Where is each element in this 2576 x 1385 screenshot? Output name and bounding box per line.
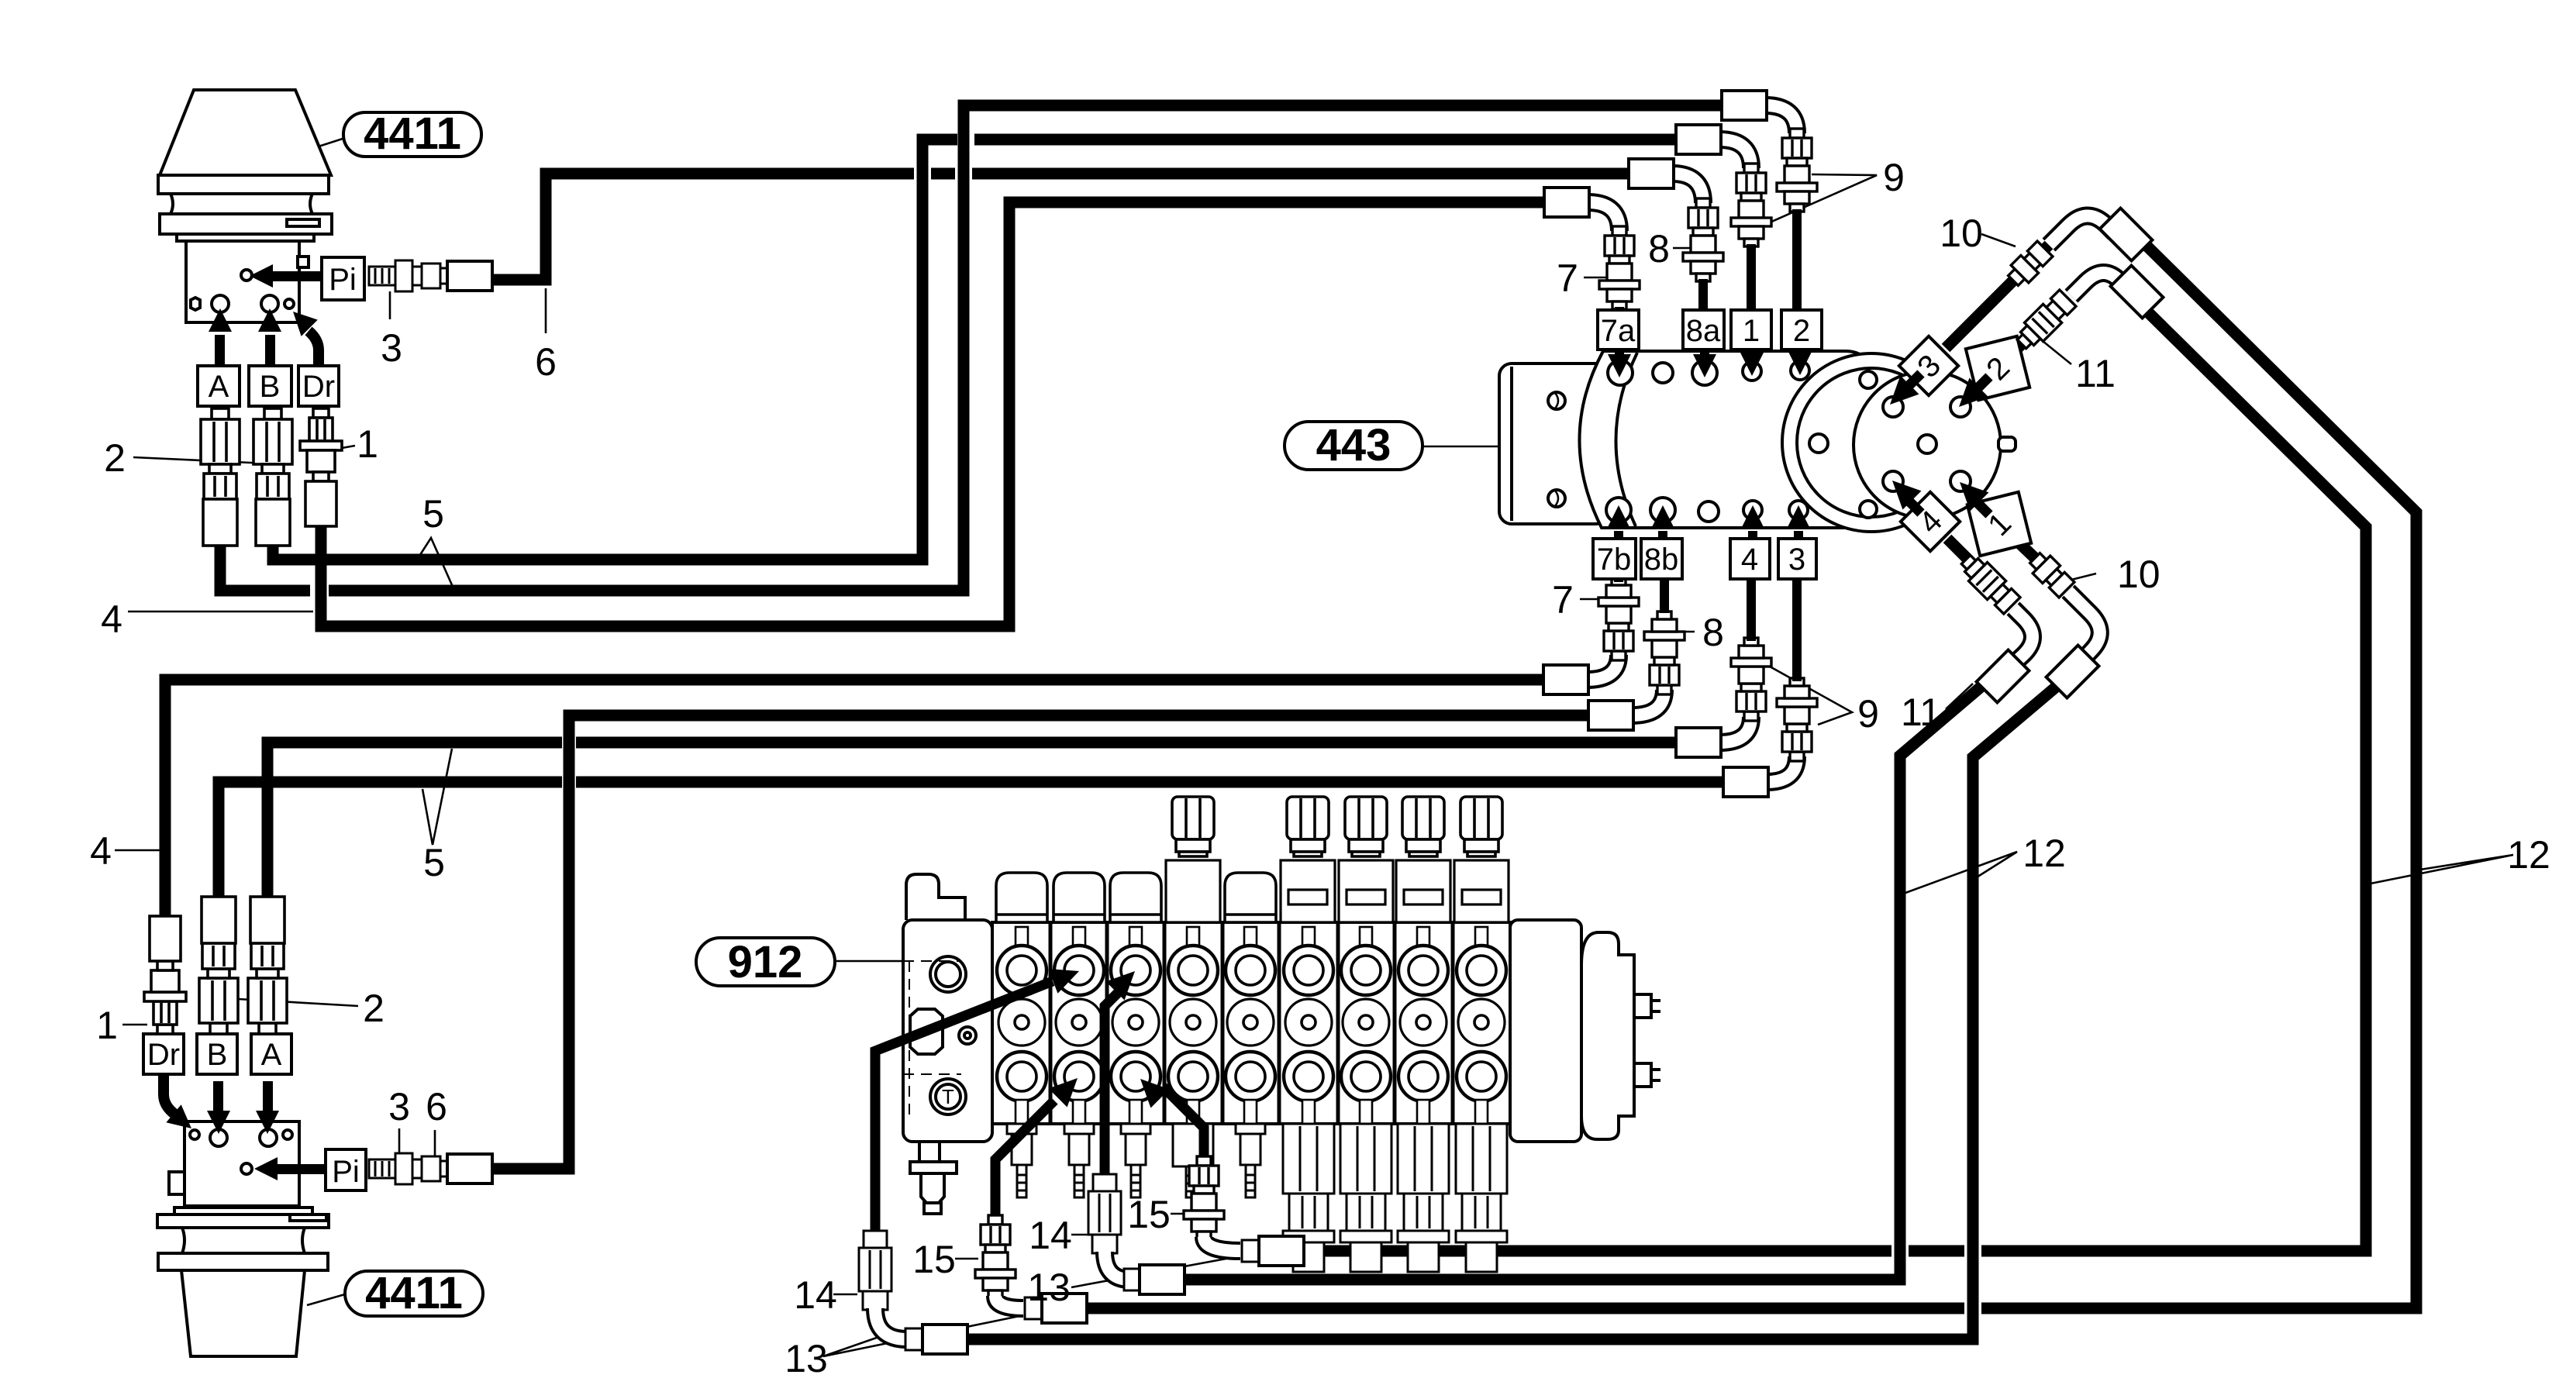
svg-text:A: A xyxy=(261,1038,282,1072)
svg-text:1: 1 xyxy=(357,422,378,466)
svg-text:8: 8 xyxy=(1648,227,1670,270)
svg-text:B: B xyxy=(260,370,281,404)
svg-text:11: 11 xyxy=(2075,352,2116,395)
curved Dr arrow bottom xyxy=(164,1076,175,1115)
hose B-top to swivel port 1 xyxy=(273,140,957,560)
right end plate and bracket xyxy=(1510,920,1660,1142)
joystick bellows trapezoid xyxy=(160,90,331,175)
svg-text:7b: 7b xyxy=(1597,543,1632,577)
arrow V4 to section3 bottom xyxy=(1163,1087,1204,1170)
leader label 11 lower xyxy=(1946,684,1973,709)
leader label 15 left xyxy=(955,1258,978,1260)
mounting bracket xyxy=(1499,363,1608,524)
arrowhead into valve section3 bottom port xyxy=(1131,1070,1169,1108)
fitting 11 upper xyxy=(2012,289,2077,353)
hose 12: square2 to fitting 11 upper xyxy=(2016,308,2058,350)
hose A-bottom to swivel port 4 xyxy=(267,742,562,915)
valve body xyxy=(184,1121,299,1206)
leader label 3 top xyxy=(389,291,391,319)
arrow V1 to section2 top xyxy=(875,981,1053,1234)
front flange circle xyxy=(1854,371,2001,519)
arrows from diamonds into flange ports xyxy=(1905,374,1989,515)
svg-text:7a: 7a xyxy=(1601,314,1636,348)
hose Dr-bottom to swivel 7b xyxy=(165,680,1548,938)
leader label 3 bottom xyxy=(398,1128,401,1153)
fitting stacks above top port boxes xyxy=(1599,226,1640,309)
svg-text:1: 1 xyxy=(96,1004,118,1047)
swivel body xyxy=(1579,351,2016,532)
V1 (item 14) xyxy=(859,1231,891,1310)
leader label 6 top xyxy=(545,288,547,333)
leader label 7 top xyxy=(1584,277,1606,279)
stems from boxes down to stacks xyxy=(1614,579,1802,681)
svg-text:2: 2 xyxy=(363,987,385,1030)
svg-text:Dr: Dr xyxy=(147,1038,180,1072)
valve body xyxy=(186,241,299,322)
svg-text:4: 4 xyxy=(90,829,112,873)
svg-text:9: 9 xyxy=(1883,156,1905,199)
svg-text:8b: 8b xyxy=(1644,543,1679,577)
svg-text:6: 6 xyxy=(426,1085,447,1128)
leader label 14 mid xyxy=(1071,1234,1088,1236)
leader 4411 bottom balloon xyxy=(307,1294,345,1305)
leader label 6 bottom xyxy=(434,1130,436,1159)
svg-text:15: 15 xyxy=(1127,1193,1171,1236)
svg-text:8: 8 xyxy=(1702,611,1724,654)
hose 12: elbowC down left leg xyxy=(1171,676,1994,1280)
svg-text:15: 15 xyxy=(912,1238,956,1281)
svg-text:7: 7 xyxy=(1557,257,1578,300)
svg-text:5: 5 xyxy=(423,841,445,884)
svg-text:912: 912 xyxy=(728,937,803,987)
bottom hose elbows into swivel bottom ports xyxy=(1587,655,1797,782)
fitting stacks below A,B xyxy=(201,408,240,546)
hose 12: elbow2 down to valve (inner right leg) xyxy=(1981,308,2366,1251)
arrowhead into valve section2 bottom port xyxy=(1049,1069,1087,1107)
leader label 13 right V xyxy=(1071,1256,1239,1287)
leader label 5 bottom V xyxy=(422,749,452,845)
fitting 3 at Pi bottom xyxy=(369,1153,447,1184)
leader label 8 bottom xyxy=(1673,631,1695,633)
fitting 3 at Pi (horizontal) xyxy=(369,260,447,291)
svg-text:2: 2 xyxy=(1793,314,1810,348)
flange plates xyxy=(158,175,329,194)
Pi arrow bottom xyxy=(273,1164,326,1174)
V3 (item 14 mid) xyxy=(1088,1174,1121,1253)
leader label 4 top xyxy=(128,611,313,613)
hose 12: elbowD down left outer leg xyxy=(964,680,2064,1339)
arrowhead into valve section3 top port xyxy=(1106,962,1144,1000)
svg-text:4411: 4411 xyxy=(365,1268,463,1318)
svg-text:9: 9 xyxy=(1857,692,1879,736)
port holes xyxy=(190,1130,199,1139)
svg-text:13: 13 xyxy=(1027,1266,1071,1309)
balloon 4411 top xyxy=(343,112,481,157)
port letter boxes xyxy=(198,257,364,406)
arrows from boxes up into bottom ports xyxy=(1614,531,1803,539)
body port holes top row xyxy=(1608,360,1633,385)
flange diamonds and squares xyxy=(1899,336,2031,556)
arrows from boxes into top ports xyxy=(1615,350,1805,357)
front flange holes xyxy=(1883,397,1903,417)
arrow V2 to section2 bottom xyxy=(995,1101,1054,1228)
leader label 11 top xyxy=(2043,341,2071,364)
svg-text:A: A xyxy=(209,370,229,404)
port letter boxes xyxy=(143,1034,366,1190)
svg-text:3: 3 xyxy=(1788,543,1805,577)
leader label 5 top V xyxy=(417,538,453,587)
arrowhead into valve section2 top port xyxy=(1048,959,1084,994)
V4 (item 15 right) xyxy=(1184,1156,1224,1239)
leader label 9 bottom V xyxy=(1770,667,1852,725)
flange plates xyxy=(174,1208,312,1214)
svg-text:12: 12 xyxy=(2507,833,2550,877)
Pi arrow top xyxy=(268,271,321,281)
balloon 912 xyxy=(696,938,835,986)
elbow tube C xyxy=(2012,608,2033,665)
stems from stacks to boxes xyxy=(1615,209,1802,312)
svg-text:4411: 4411 xyxy=(364,109,461,159)
svg-text:Pi: Pi xyxy=(329,263,357,297)
svg-text:Pi: Pi xyxy=(332,1155,360,1189)
bottom stems xyxy=(1007,1124,1036,1197)
fitting 10 upper xyxy=(2005,240,2054,290)
section spool circles xyxy=(997,927,1047,1124)
leader label 8 top xyxy=(1673,247,1696,250)
arrows A,B into ports xyxy=(215,335,225,367)
leader 4411 top balloon xyxy=(299,138,345,153)
hose 6 bottom: Pi to swivel 8b xyxy=(482,715,1593,1169)
leader label 9 top V xyxy=(1770,174,1877,222)
curved Dr arrow xyxy=(309,331,319,367)
leader label 10 top xyxy=(1981,234,2016,246)
svg-text:13: 13 xyxy=(785,1337,828,1380)
body port holes bottom row xyxy=(1606,498,1631,522)
svg-text:4: 4 xyxy=(101,598,122,641)
balloon 4411 bottom xyxy=(345,1271,483,1316)
svg-text:T: T xyxy=(942,1085,954,1108)
balloon 443 xyxy=(1285,422,1422,470)
port holes xyxy=(191,298,200,310)
svg-text:14: 14 xyxy=(794,1273,837,1317)
port boxes top xyxy=(1598,310,1822,350)
leader label 1 top xyxy=(333,446,355,450)
fitting 10 lower xyxy=(2026,550,2076,599)
bellows trapezoid xyxy=(181,1270,305,1356)
leader label 13 left V xyxy=(823,1315,1023,1356)
fitting stacks below bottom port boxes xyxy=(1598,577,1639,660)
leader label 12 right V xyxy=(2371,855,2513,884)
hose 12: diamond3 to fitting 10 upper xyxy=(1946,232,2062,348)
svg-text:7: 7 xyxy=(1552,578,1574,622)
svg-text:Dr: Dr xyxy=(302,370,335,404)
arrow V3 to section3 top xyxy=(1105,993,1118,1177)
leader label 12 left V xyxy=(1905,852,2017,893)
fitting stack below Dr (item 1) xyxy=(300,408,342,526)
svg-text:4: 4 xyxy=(1741,543,1758,577)
elbow tube 2 xyxy=(2071,273,2127,296)
hose A-top to swivel port 2 xyxy=(220,544,310,591)
svg-text:10: 10 xyxy=(2117,553,2160,596)
fitting stack above Dr (item 1) xyxy=(144,916,186,1034)
port boxes bottom xyxy=(1593,539,1816,579)
hose Dr-top: unit Dr port to swivel 7a xyxy=(321,202,1549,626)
leader label 7 bottom xyxy=(1580,598,1602,601)
hose 12: square1 to fitting 10 lower xyxy=(2017,541,2054,577)
leader label 14 left xyxy=(833,1294,857,1296)
svg-text:443: 443 xyxy=(1316,420,1391,470)
top hose elbows into swivel top ports xyxy=(1588,105,1797,231)
tall stacks sections 4,6,7,8,9 xyxy=(1166,860,1509,922)
left end plate xyxy=(903,874,992,1214)
elbow tube 1 xyxy=(2049,215,2115,245)
svg-text:1: 1 xyxy=(1743,314,1760,348)
leader label 15 right xyxy=(1171,1213,1194,1215)
back flange circle xyxy=(1782,353,1960,532)
thick arrows from valve bottom fittings into valve ports xyxy=(875,981,1204,1234)
elbow tube D xyxy=(2068,591,2100,660)
svg-text:3: 3 xyxy=(388,1085,410,1128)
svg-text:14: 14 xyxy=(1029,1214,1072,1257)
hose 12: elbow1 down right side to valve fitting 15 right leg xyxy=(1981,240,2416,1308)
leader label 2 bottom xyxy=(225,998,358,1006)
svg-text:2: 2 xyxy=(104,436,126,480)
leader label 2 top xyxy=(133,457,267,463)
caps sections 1,2,3,5 xyxy=(996,873,1047,922)
hose 6 top: Pi to swivel 8a xyxy=(474,174,914,280)
leader label 4 bottom xyxy=(115,849,160,852)
svg-text:3: 3 xyxy=(381,326,402,370)
svg-text:12: 12 xyxy=(2023,832,2066,875)
valve body xyxy=(992,922,1510,1124)
arrows B,A down into ports xyxy=(213,1081,223,1111)
hose B-bottom to swivel port 3 xyxy=(219,782,562,915)
leader 443 balloon xyxy=(1423,446,1501,448)
hose 12: diamond4 to fitting 11 lower xyxy=(1947,539,1988,580)
V2 (item 15) xyxy=(975,1215,1016,1298)
fitting stacks above B,A (item 2) xyxy=(199,897,238,1034)
leader label 10 lower xyxy=(2071,574,2096,580)
fitting 11 lower xyxy=(1957,550,2021,615)
leader label 1 bottom xyxy=(122,1024,147,1026)
svg-text:B: B xyxy=(207,1038,228,1072)
svg-text:11: 11 xyxy=(1901,691,1941,734)
svg-text:6: 6 xyxy=(535,340,557,384)
svg-text:8a: 8a xyxy=(1686,314,1721,348)
svg-text:10: 10 xyxy=(1940,212,1983,255)
leader 912 balloon xyxy=(836,960,908,963)
svg-text:5: 5 xyxy=(422,492,444,536)
